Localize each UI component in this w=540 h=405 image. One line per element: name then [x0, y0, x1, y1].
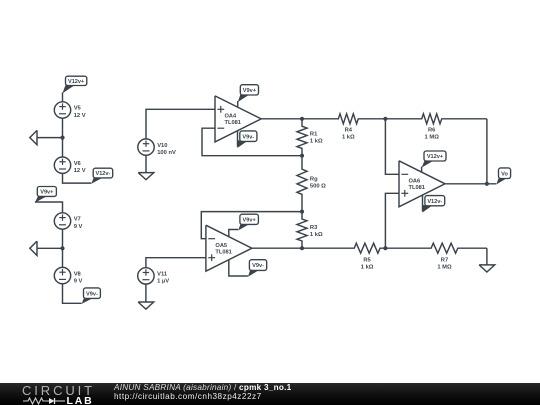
- voltage source V6 12 V: [54, 157, 85, 174]
- svg-text:R6: R6: [428, 128, 436, 134]
- svg-text:V9v+: V9v+: [243, 217, 257, 223]
- net flag V9v- (OA4 V- pin): [238, 131, 257, 148]
- svg-text:TL081: TL081: [215, 250, 231, 256]
- svg-text:12 V: 12 V: [74, 113, 86, 119]
- node A dot (OA4 out / R1 / R4): [300, 117, 304, 121]
- svg-text:500 Ω: 500 Ω: [310, 183, 326, 189]
- svg-text:R3: R3: [310, 225, 318, 231]
- voltage source V11 1 uV: [138, 268, 170, 285]
- node F dot (R5 / R7 / OA6 +in): [383, 246, 387, 250]
- svg-text:R7: R7: [441, 258, 448, 264]
- voltage source V7 9 V: [54, 213, 82, 230]
- wire V10 to OA4 +in: [146, 109, 215, 139]
- node E dot (R4 / R6 / OA6 -in): [383, 117, 387, 121]
- op-amp OA6 TL081: [399, 161, 445, 207]
- svg-text:1 kΩ: 1 kΩ: [361, 265, 374, 271]
- resistor R5 1 kOhm: [302, 243, 385, 270]
- wire R6 right leg down to output: [486, 119, 488, 184]
- svg-text:V9v-: V9v-: [252, 263, 264, 269]
- node D dot (R3 / OA5 out / R5): [300, 246, 304, 250]
- footer bar: [0, 383, 540, 405]
- net flag Vo (output): [496, 168, 510, 185]
- wire node to V8: [62, 248, 64, 267]
- svg-text:V5: V5: [74, 106, 82, 112]
- svg-text:1 kΩ: 1 kΩ: [310, 138, 323, 144]
- voltage source V5 12 V: [54, 102, 85, 119]
- svg-text:V11: V11: [157, 272, 168, 278]
- svg-text:V6: V6: [74, 161, 82, 167]
- svg-text:R4: R4: [345, 128, 353, 134]
- svg-text:OA6: OA6: [409, 179, 421, 185]
- wire OA5 feedback (-in to node C): [201, 212, 302, 239]
- net flag V12v- (OA6 V- pin): [423, 195, 445, 212]
- svg-text:Rg: Rg: [310, 176, 318, 182]
- wire flag to V7: [35, 202, 63, 213]
- svg-text:V7: V7: [74, 217, 81, 223]
- wire OA5 output: [252, 247, 302, 249]
- resistor R6 1 MOhm: [385, 114, 487, 141]
- wire node to V6: [62, 138, 64, 157]
- svg-text:OA5: OA5: [215, 243, 227, 249]
- svg-text:TL081: TL081: [225, 120, 241, 126]
- node G dot (output / R6): [485, 182, 489, 186]
- svg-text:V12v-: V12v-: [427, 199, 442, 205]
- svg-text:9 V: 9 V: [74, 224, 83, 230]
- wire V6 bottom: [63, 173, 92, 183]
- net flag V9v+ (OA5 V+ pin): [229, 214, 259, 237]
- ground (V10): [138, 173, 154, 180]
- svg-text:V9v+: V9v+: [40, 190, 54, 196]
- wire node E to OA6 -in: [385, 119, 399, 175]
- svg-text:1 MΩ: 1 MΩ: [437, 265, 452, 271]
- node C dot (Rg / R3 / OA5 fb): [300, 210, 304, 214]
- wire OA4 feedback (-in to node B): [202, 128, 302, 156]
- op-amp OA5 TL081: [206, 225, 252, 271]
- svg-text:R1: R1: [310, 131, 318, 137]
- node B dot (R1 / Rg / OA4 fb): [300, 154, 304, 158]
- svg-text:V12v-: V12v-: [95, 171, 110, 177]
- svg-text:TL081: TL081: [409, 185, 425, 191]
- footer line 2: url: [114, 393, 262, 401]
- junction dot stack1: [60, 136, 64, 140]
- svg-text:V9v-: V9v-: [86, 291, 98, 297]
- svg-text:OA4: OA4: [225, 114, 238, 120]
- junction dot stack2: [60, 246, 64, 250]
- resistor R3 1 kOhm: [297, 212, 323, 249]
- svg-text:V10: V10: [157, 143, 167, 149]
- svg-text:9 V: 9 V: [74, 278, 83, 284]
- voltage source V10 100 nV: [138, 139, 176, 156]
- net flag V9v- (OA5 V- pin): [229, 260, 267, 277]
- svg-text:1 MΩ: 1 MΩ: [425, 135, 440, 141]
- svg-text:V9v+: V9v+: [243, 88, 257, 94]
- net flag V9v- (bottom of V8): [82, 288, 101, 304]
- svg-text:V9v-: V9v-: [242, 134, 254, 140]
- voltage source V8 9 V: [54, 267, 82, 284]
- svg-text:V8: V8: [74, 271, 82, 277]
- logo LAB text: [67, 396, 94, 405]
- wire V7 to node: [62, 229, 64, 248]
- wire OA6 +in to node F: [385, 193, 399, 248]
- ground (stack 1): [30, 130, 63, 144]
- op-amp OA4 TL081: [215, 96, 261, 142]
- wire V10 to ground: [145, 155, 147, 172]
- net flag V9v+ (top of V7): [35, 187, 57, 203]
- net flag V12v+ (top of V5): [63, 76, 87, 102]
- wire V5 to node: [62, 118, 64, 137]
- ground (output side): [479, 265, 495, 272]
- svg-text:12 V: 12 V: [74, 168, 86, 174]
- resistor Rg 500 Ohm: [297, 156, 326, 212]
- svg-text:V12v+: V12v+: [427, 154, 444, 160]
- svg-text:V12v+: V12v+: [68, 79, 85, 85]
- resistor R4 1 kOhm: [302, 114, 385, 141]
- wire R7 to ground: [486, 248, 488, 265]
- footer line 1: author / title: [114, 384, 291, 392]
- wire V11 to OA5 +in: [146, 258, 206, 268]
- svg-text:R5: R5: [363, 258, 371, 264]
- svg-text:100 nV: 100 nV: [157, 150, 176, 156]
- wire OA6 output: [445, 183, 496, 185]
- resistor R7 1 MOhm: [385, 243, 487, 270]
- wire V8 bottom: [63, 284, 82, 304]
- ground (V11): [138, 302, 154, 309]
- net flag V12v+ (OA6 V+ pin): [422, 151, 446, 172]
- net flag V9v+ (OA4 V+ pin): [238, 85, 259, 108]
- svg-text:1 kΩ: 1 kΩ: [342, 135, 355, 141]
- svg-text:1 kΩ: 1 kΩ: [310, 232, 323, 238]
- svg-text:Vo: Vo: [501, 171, 508, 177]
- logo resistor-diode squiggle: [23, 397, 67, 405]
- CircuitLab logo wordmark: [22, 384, 95, 397]
- net flag V12v- (bottom of V6): [91, 168, 112, 184]
- wire OA4 output: [261, 118, 302, 120]
- svg-text:1 µV: 1 µV: [157, 279, 169, 285]
- wire V11 to ground: [145, 284, 147, 302]
- ground (stack 2): [30, 241, 63, 255]
- resistor R1 1 kOhm: [297, 119, 323, 156]
